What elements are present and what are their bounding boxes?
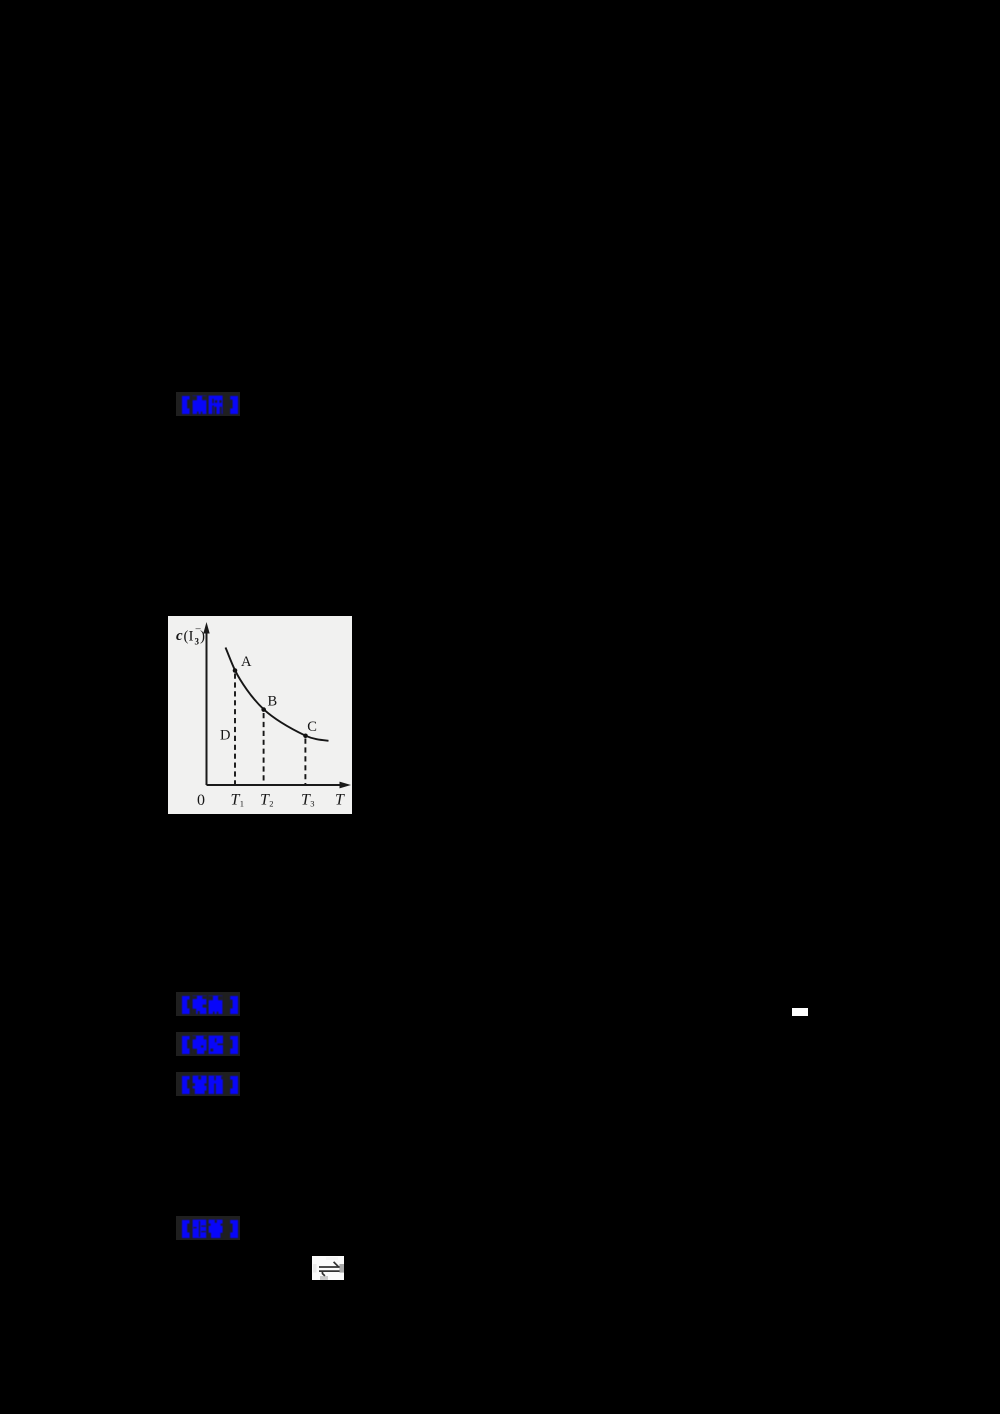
label 【点评】	[176, 392, 240, 416]
dashed line at T2	[263, 713, 265, 784]
equilibrium bottom arrow	[319, 1270, 340, 1272]
label 【专题】	[176, 1032, 240, 1056]
svg-text:2: 2	[269, 799, 273, 809]
svg-text:0: 0	[197, 792, 205, 809]
svg-text:(I: (I	[184, 629, 194, 645]
figure: c(I3-) vs T chart	[168, 616, 352, 814]
small white rectangle	[792, 1008, 808, 1016]
svg-text:1: 1	[240, 799, 244, 809]
curve A-B-C	[226, 648, 329, 741]
reversible reaction arrow box	[312, 1256, 344, 1280]
point A	[233, 668, 238, 673]
point C	[303, 734, 308, 739]
svg-text:c: c	[176, 628, 183, 644]
y-axis	[206, 633, 208, 786]
label 【考点】	[176, 992, 240, 1016]
label 【分析】	[176, 1072, 240, 1096]
svg-text:T: T	[335, 792, 345, 809]
dashed line at T1	[234, 674, 236, 785]
dashed line at T3	[304, 739, 306, 785]
equilibrium top arrow	[319, 1266, 340, 1268]
x-axis	[207, 784, 341, 786]
label 【解答】	[176, 1216, 240, 1240]
svg-text:A: A	[241, 654, 252, 670]
svg-text:D: D	[220, 728, 230, 744]
svg-text:C: C	[307, 719, 317, 735]
svg-text:3: 3	[310, 799, 314, 809]
point B	[261, 707, 266, 712]
svg-text:3: 3	[195, 637, 200, 647]
svg-text:): )	[200, 629, 205, 645]
svg-text:B: B	[268, 694, 278, 710]
